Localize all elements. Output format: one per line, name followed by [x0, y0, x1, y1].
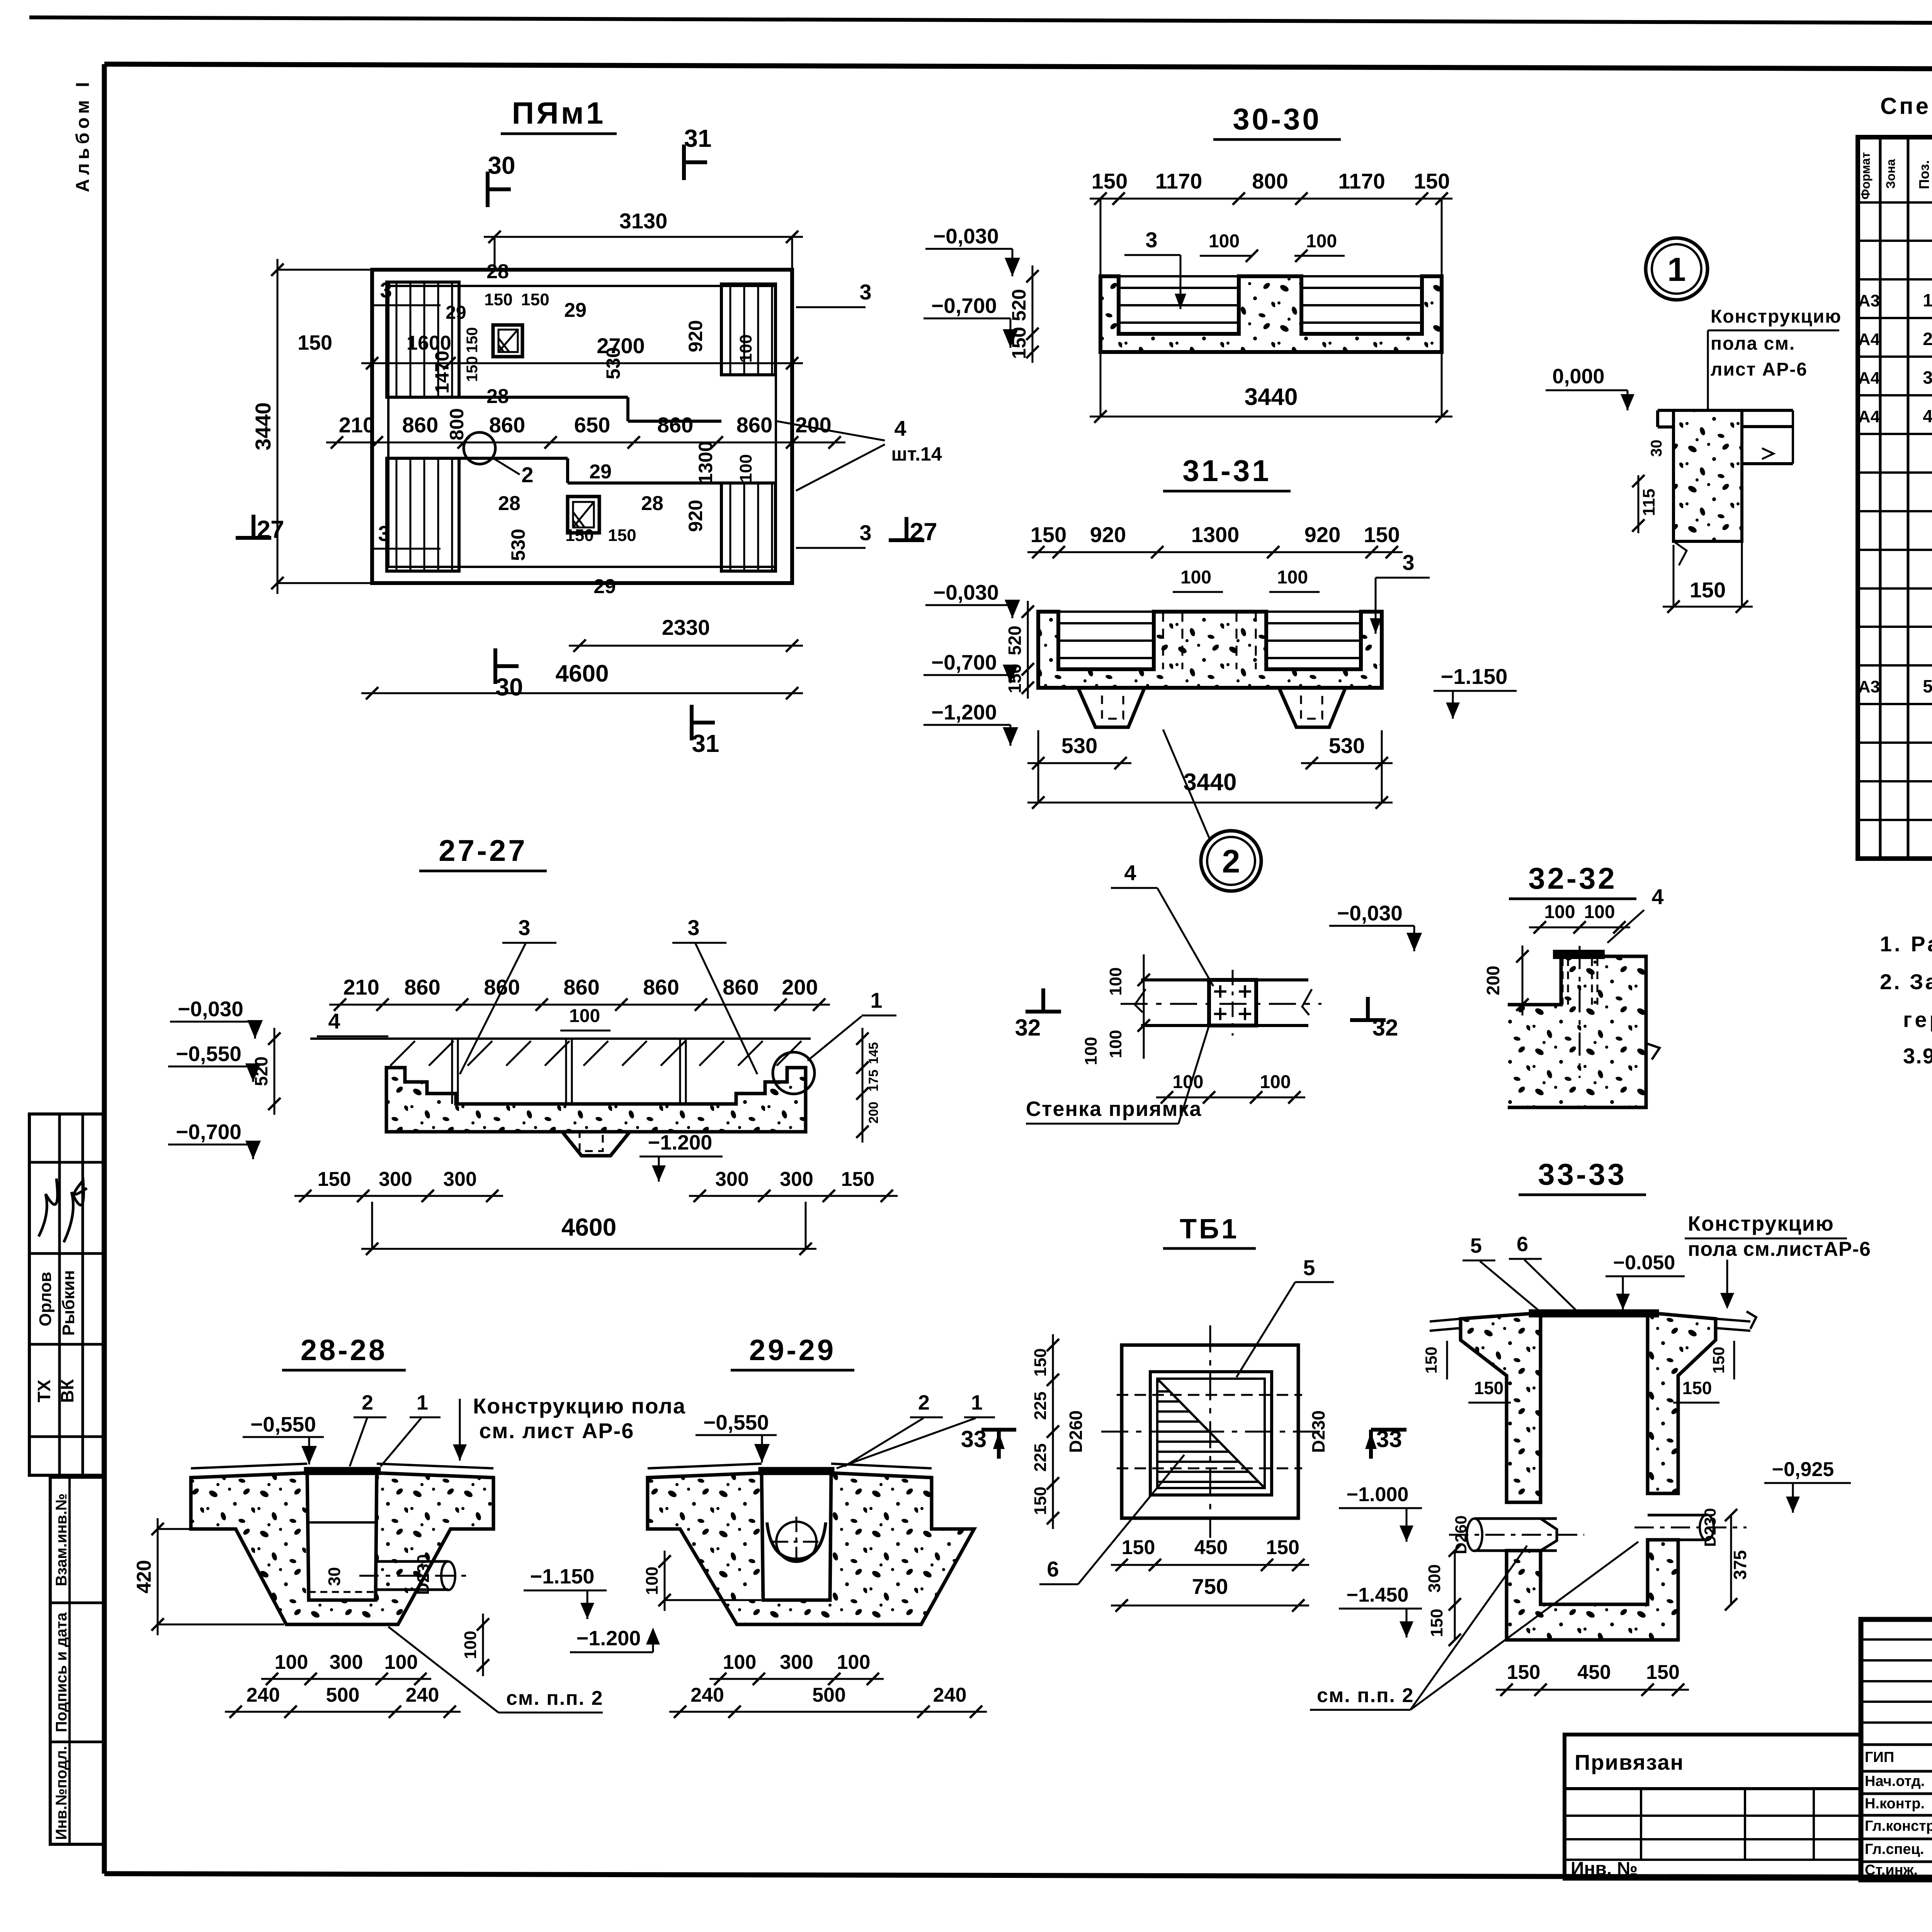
section 27-27 node circle 1	[773, 1052, 815, 1094]
plan ТБ1 bottom dims	[1111, 1536, 1309, 1612]
section 32-32 body	[1508, 946, 1660, 1107]
svg-text:D260: D260	[1066, 1410, 1086, 1453]
plan section marks 27	[236, 515, 937, 546]
svg-text:100: 100	[1584, 902, 1615, 922]
plan ТБ1 labels D260 D230	[1066, 1410, 1328, 1453]
svg-text:100: 100	[837, 1651, 871, 1673]
svg-text:Нач.отд.: Нач.отд.	[1865, 1773, 1925, 1789]
svg-text:145: 145	[866, 1042, 881, 1064]
section 31-31 left dims 520 150	[1005, 601, 1034, 699]
svg-text:4600: 4600	[561, 1213, 616, 1241]
svg-text:4600: 4600	[556, 660, 609, 687]
svg-text:3: 3	[1402, 550, 1414, 575]
svg-text:860: 860	[736, 413, 772, 437]
svg-text:−0,550: −0,550	[176, 1042, 241, 1066]
svg-text:200: 200	[782, 975, 818, 999]
svg-text:−0,550: −0,550	[250, 1412, 316, 1436]
svg-text:Поз.: Поз.	[1916, 160, 1932, 189]
plan grate panel top-right	[721, 284, 776, 375]
svg-text:1: 1	[417, 1391, 428, 1414]
svg-text:2: 2	[1923, 329, 1932, 349]
tie-in table Привязан	[1565, 1735, 1861, 1879]
svg-text:150: 150	[841, 1168, 875, 1190]
svg-text:5: 5	[1470, 1234, 1482, 1257]
svg-text:920: 920	[685, 320, 706, 352]
svg-text:1170: 1170	[1338, 169, 1385, 193]
svg-text:−1.200: −1.200	[648, 1131, 713, 1154]
section 33-33 pipe D230 right	[1634, 1515, 1747, 1540]
section 28-28 elevation -1.150	[524, 1565, 607, 1619]
svg-text:2: 2	[918, 1391, 930, 1414]
svg-text:150: 150	[565, 526, 594, 545]
svg-text:860: 860	[723, 975, 759, 999]
svg-text:100: 100	[1544, 902, 1575, 922]
section 29-29 labels 2 1	[837, 1391, 995, 1468]
section 27-27 elevation -1.200	[639, 1131, 723, 1182]
svg-text:750: 750	[1192, 1574, 1228, 1599]
node 1 dims 30 115 20	[1632, 440, 1665, 533]
svg-text:−0,700: −0,700	[931, 294, 997, 318]
section 33-33 left dims 300 150 D260	[1425, 1515, 1470, 1646]
svg-text:300: 300	[379, 1168, 412, 1190]
section 29-29 section mark 33 right	[961, 1426, 1016, 1459]
svg-text:D230: D230	[1701, 1508, 1719, 1547]
svg-text:герметиком в соответствии с: герметиком в соответствии с рекомендация…	[1903, 1007, 1932, 1032]
svg-text:см. п.п. 2: см. п.п. 2	[1317, 1684, 1414, 1707]
section 33-33 bottom dims	[1496, 1661, 1689, 1696]
svg-text:Ст.инж.: Ст.инж.	[1865, 1862, 1918, 1878]
section 32-32 dims 100 100	[1529, 902, 1630, 934]
svg-text:225: 225	[1031, 1443, 1050, 1471]
svg-text:30: 30	[495, 673, 523, 701]
section 27-27 body	[386, 1068, 806, 1156]
plan small anchor dims	[446, 260, 663, 598]
svg-text:ПЯм1: ПЯм1	[512, 96, 606, 130]
plan ТБ1 grate frame	[1150, 1372, 1272, 1495]
svg-text:150: 150	[1092, 169, 1128, 193]
node 2 leader to section 31-31	[1163, 730, 1209, 838]
svg-text:Инв. №: Инв. №	[1571, 1859, 1638, 1879]
svg-text:920: 920	[1090, 522, 1126, 547]
svg-text:2. Зазор между трубой и ст: 2. Зазор между трубой и стенкой трапа за…	[1880, 969, 1932, 994]
svg-text:500: 500	[812, 1684, 846, 1706]
svg-text:240: 240	[247, 1684, 280, 1706]
section 32-32 label 4	[1607, 884, 1664, 943]
svg-text:−0,030: −0,030	[933, 580, 999, 604]
section 27-27 right dims 145 175 200	[856, 1028, 881, 1143]
svg-text:300: 300	[715, 1168, 749, 1190]
svg-text:2: 2	[1222, 843, 1240, 879]
svg-text:29-29: 29-29	[749, 1334, 836, 1367]
svg-text:ГИП: ГИП	[1865, 1749, 1894, 1765]
svg-text:3440: 3440	[251, 402, 275, 451]
svg-text:2: 2	[362, 1391, 373, 1414]
section 31-31 body	[1038, 612, 1382, 688]
svg-text:3: 3	[378, 521, 390, 546]
svg-text:150: 150	[1507, 1661, 1541, 1684]
section 30-30 elevation -0,700	[923, 294, 1018, 348]
svg-text:150: 150	[1031, 522, 1066, 547]
section 33-33 leader см.п.п.2	[1310, 1542, 1638, 1710]
svg-text:100: 100	[736, 454, 755, 482]
notes text	[1880, 932, 1932, 1068]
svg-text:860: 860	[404, 975, 440, 999]
svg-text:2: 2	[521, 463, 533, 487]
svg-text:см. лист АР-6: см. лист АР-6	[479, 1418, 634, 1443]
svg-text:Подпись и дата: Подпись и дата	[53, 1612, 70, 1732]
plan dimensions middle row	[326, 413, 845, 449]
section 33-33 dims 150 top	[1422, 1341, 1734, 1403]
title block grid	[1861, 1619, 1932, 1881]
paper outer top edge line	[29, 17, 1932, 25]
svg-text:4: 4	[328, 1009, 340, 1033]
svg-text:3440: 3440	[1245, 384, 1298, 410]
svg-text:4: 4	[1923, 406, 1932, 426]
svg-text:800: 800	[446, 408, 468, 440]
svg-text:300: 300	[443, 1168, 477, 1190]
svg-text:30: 30	[325, 1567, 344, 1586]
svg-text:530: 530	[507, 529, 529, 561]
plan dimension 4600	[361, 660, 803, 699]
svg-text:240: 240	[690, 1684, 724, 1706]
section 27-27 floor line and grates	[310, 1039, 811, 1104]
svg-text:100: 100	[1106, 967, 1125, 995]
svg-text:Стенка приямка: Стенка приямка	[1026, 1097, 1202, 1121]
svg-text:29: 29	[589, 461, 612, 483]
section 27-27 dimension 4600	[361, 1202, 816, 1255]
svg-text:4: 4	[1651, 884, 1663, 909]
svg-text:2330: 2330	[662, 615, 710, 639]
plan ТБ1 section marks 33	[1365, 1426, 1406, 1459]
svg-text:1300: 1300	[1191, 522, 1240, 547]
plan rebar labels 3	[371, 278, 872, 549]
svg-text:420: 420	[133, 1560, 155, 1594]
svg-text:−1.450: −1.450	[1347, 1584, 1409, 1606]
svg-text:150: 150	[298, 331, 332, 354]
svg-text:4: 4	[1124, 861, 1136, 885]
svg-text:3440: 3440	[1184, 769, 1237, 796]
section 30-30 dims 100	[1200, 231, 1345, 262]
svg-text:450: 450	[1194, 1536, 1228, 1559]
section 28-28 labels 2 1	[350, 1391, 440, 1466]
svg-text:150: 150	[1709, 1347, 1728, 1374]
svg-text:33-33: 33-33	[1538, 1157, 1627, 1191]
svg-text:ВК: ВК	[57, 1379, 77, 1403]
section 27-27 bottom dims	[294, 1168, 898, 1202]
plan grate panel bottom-right	[721, 483, 776, 571]
svg-text:D230: D230	[1308, 1410, 1328, 1453]
section 27-27 labels 3 with leaders	[460, 915, 757, 1074]
svg-text:29: 29	[446, 303, 466, 323]
svg-text:шт.14: шт.14	[891, 443, 942, 465]
svg-text:0,000: 0,000	[1552, 365, 1604, 388]
section 28-28 body	[191, 1464, 493, 1624]
svg-text:450: 450	[1577, 1661, 1611, 1684]
plan dimension 2700 row	[298, 331, 803, 369]
node 2 detail label 4 with leader	[1111, 861, 1213, 986]
svg-text:300: 300	[1425, 1564, 1444, 1592]
svg-text:100: 100	[569, 1006, 600, 1026]
svg-text:300: 300	[330, 1651, 363, 1673]
section 27-27 left dim 520	[251, 1028, 281, 1115]
svg-text:200: 200	[866, 1102, 881, 1124]
plan anchor plate 1	[493, 325, 522, 357]
svg-text:27-27: 27-27	[439, 833, 527, 867]
svg-text:3: 3	[687, 915, 699, 940]
svg-text:29: 29	[564, 299, 587, 321]
svg-text:31: 31	[684, 124, 711, 152]
svg-text:100: 100	[1277, 567, 1308, 588]
svg-text:1: 1	[971, 1391, 983, 1414]
svg-text:−0,030: −0,030	[178, 997, 243, 1021]
section 30-30 top dimensions	[1090, 169, 1452, 274]
svg-text:D230: D230	[414, 1554, 433, 1595]
svg-text:−1.150: −1.150	[530, 1565, 595, 1588]
svg-text:100: 100	[1172, 1072, 1203, 1092]
svg-text:3: 3	[1923, 367, 1932, 388]
svg-text:32: 32	[1372, 1015, 1398, 1041]
svg-text:860: 860	[484, 975, 520, 999]
svg-text:100: 100	[1209, 231, 1240, 252]
svg-text:см. п.п. 2: см. п.п. 2	[506, 1687, 603, 1709]
svg-text:−0,925: −0,925	[1772, 1458, 1834, 1481]
section 31-31 top dimensions	[1027, 522, 1403, 558]
section 30-30 dimension 3440	[1090, 354, 1452, 423]
svg-text:А4: А4	[1858, 330, 1880, 349]
svg-text:Гл.спец.: Гл.спец.	[1865, 1841, 1924, 1857]
plan ТБ1 left dims 150 225 225 150	[1031, 1334, 1059, 1529]
section 31-31 elevations	[923, 580, 1020, 746]
svg-text:−0,030: −0,030	[1337, 901, 1403, 925]
svg-text:150: 150	[1474, 1378, 1504, 1398]
section 33-33 body	[1430, 1311, 1756, 1640]
plan dimension 3440 vertical	[251, 259, 371, 594]
svg-text:175: 175	[866, 1070, 881, 1092]
section 27-27 elevations left	[168, 997, 263, 1159]
svg-text:150: 150	[1122, 1536, 1155, 1559]
svg-text:150: 150	[1427, 1609, 1446, 1637]
svg-text:1300: 1300	[695, 441, 716, 484]
section 29-29 bottom dims	[669, 1651, 987, 1718]
svg-text:530: 530	[602, 347, 624, 379]
section 30-30 elevation -0,030	[925, 224, 1020, 276]
svg-text:Зона: Зона	[1884, 159, 1898, 189]
section 27-27 label 4 left	[317, 1009, 388, 1036]
svg-text:31-31: 31-31	[1182, 454, 1271, 488]
svg-text:3: 3	[859, 280, 871, 304]
svg-text:28: 28	[486, 385, 509, 408]
svg-text:860: 860	[489, 413, 525, 437]
svg-text:Рыбкин: Рыбкин	[59, 1270, 78, 1336]
svg-text:150: 150	[1682, 1378, 1712, 1398]
section 32-32 dim 200 left	[1483, 946, 1529, 1015]
svg-text:31: 31	[692, 730, 719, 757]
node 2 section marks 32	[1015, 988, 1398, 1041]
svg-text:3.900-3, вып. 1 п. 6.2 .: 3.900-3, вып. 1 п. 6.2 .	[1903, 1044, 1932, 1068]
svg-text:100: 100	[461, 1631, 480, 1659]
svg-text:150: 150	[1031, 1486, 1050, 1515]
svg-text:1. Расположение приямка ПЯм1: 1. Расположение приямка ПЯм1, трапа ТБ1 …	[1880, 932, 1932, 956]
svg-text:100: 100	[643, 1566, 662, 1595]
section 31-31 dims 530	[1027, 733, 1393, 769]
plan ТБ1 label 5 leader	[1236, 1255, 1334, 1377]
svg-text:150: 150	[318, 1168, 351, 1190]
section 27-27 label 1	[808, 988, 896, 1061]
section 33-33 elevation -0.050	[1605, 1252, 1685, 1310]
section 33-33 elevation -0,925	[1764, 1458, 1851, 1513]
section 32-32 elevation -0,030	[1329, 901, 1422, 951]
section 31-31 dimension 3440	[1027, 730, 1393, 809]
svg-text:5: 5	[1303, 1255, 1315, 1280]
svg-text:32-32: 32-32	[1528, 861, 1617, 895]
svg-text:520: 520	[1005, 626, 1025, 655]
plan ТБ1 label 6	[1039, 1455, 1184, 1584]
svg-text:27: 27	[910, 518, 937, 546]
svg-text:530: 530	[1329, 733, 1365, 758]
svg-text:100: 100	[736, 334, 755, 362]
svg-text:D260: D260	[1452, 1515, 1470, 1554]
section 29-29 dim 100 vertical	[643, 1551, 761, 1611]
svg-text:пола см.: пола см.	[1711, 333, 1795, 354]
svg-text:Конструкцию: Конструкцию	[1711, 306, 1842, 327]
specification table header	[1859, 148, 1932, 199]
svg-text:4: 4	[894, 416, 906, 440]
svg-text:150: 150	[1690, 578, 1726, 602]
plan grate panel bottom-left	[387, 458, 459, 571]
svg-text:−1.150: −1.150	[1441, 664, 1508, 689]
section 33-33 right dims 375 D230	[1701, 1508, 1750, 1611]
svg-text:Конструкцию пола: Конструкцию пола	[473, 1394, 686, 1418]
svg-text:28: 28	[641, 492, 663, 515]
section 31-31 elevation -1.150 right	[1434, 664, 1517, 719]
section 33-33 note Конструкцию пола	[1685, 1212, 1871, 1309]
svg-text:27: 27	[257, 515, 284, 543]
plan dimension 3130	[484, 209, 803, 270]
svg-text:30: 30	[488, 151, 515, 179]
svg-text:А4: А4	[1858, 369, 1880, 388]
svg-text:32: 32	[1015, 1015, 1041, 1041]
section 27-27 top dimensions	[329, 975, 830, 1011]
svg-text:Гл.констр: Гл.констр	[1865, 1818, 1932, 1834]
section 30-30 left dims 520 150	[1008, 265, 1039, 363]
section 27-27 dim 100	[560, 1006, 611, 1031]
svg-text:3: 3	[380, 278, 392, 302]
section 31-31 label 3	[1370, 550, 1430, 634]
section 29-29 body	[648, 1464, 974, 1624]
svg-text:150: 150	[1008, 327, 1030, 359]
plan anchor plate 2	[568, 497, 599, 533]
node 1 dim 150	[1663, 466, 1753, 613]
svg-text:200: 200	[1483, 966, 1503, 995]
svg-text:Орлов: Орлов	[36, 1272, 55, 1326]
section 28-28 leader см.п.п.2	[388, 1627, 603, 1713]
svg-text:210: 210	[343, 975, 379, 999]
floor construction note 28/29	[453, 1394, 686, 1461]
svg-text:150: 150	[1646, 1661, 1680, 1684]
svg-text:6: 6	[1517, 1233, 1528, 1256]
svg-text:пола см.листАР-6: пола см.листАР-6	[1688, 1238, 1871, 1260]
svg-text:520: 520	[1008, 289, 1030, 321]
section 28-28 dim 100 vertical	[461, 1614, 489, 1676]
svg-text:150: 150	[521, 290, 549, 309]
svg-text:150: 150	[1266, 1536, 1299, 1559]
svg-text:100: 100	[1180, 567, 1211, 588]
svg-text:100: 100	[275, 1651, 308, 1673]
section 30-30 label 3	[1124, 228, 1186, 309]
svg-text:860: 860	[657, 413, 693, 437]
svg-text:−0,700: −0,700	[931, 650, 997, 674]
svg-text:300: 300	[780, 1651, 813, 1673]
svg-text:860: 860	[402, 413, 438, 437]
svg-text:860: 860	[563, 975, 599, 999]
svg-text:5: 5	[1923, 676, 1932, 696]
plan ТБ1 outer square	[1122, 1345, 1298, 1518]
plan rotated dimensions	[431, 320, 755, 561]
plan grate panel top-left	[387, 282, 459, 397]
svg-text:29: 29	[594, 575, 616, 598]
svg-text:28-28: 28-28	[301, 1334, 387, 1367]
plan label 4 шт.14	[777, 416, 942, 491]
title block signature rows	[1865, 1748, 1932, 1878]
svg-text:Взам.инв.№: Взам.инв.№	[53, 1493, 70, 1586]
svg-text:100: 100	[384, 1651, 418, 1673]
svg-text:150: 150	[608, 526, 636, 545]
section 28-28 dim 420	[133, 1518, 284, 1635]
node 1 detail drawing	[1658, 410, 1793, 565]
svg-text:ТБ1: ТБ1	[1180, 1214, 1239, 1245]
svg-text:150: 150	[1005, 664, 1025, 694]
left stamp table Взам.инв.№ / Подпись и дата / Инв.№подл.	[50, 1477, 104, 1844]
plan dimension 2330	[569, 615, 803, 652]
svg-text:30-30: 30-30	[1233, 102, 1321, 136]
svg-text:100: 100	[1306, 231, 1337, 252]
svg-text:Спецификация монолитного при: Спецификация монолитного приямка ПЯм1, т…	[1880, 93, 1932, 119]
svg-text:150: 150	[464, 327, 481, 353]
section 28-28 bottom dims	[225, 1651, 461, 1718]
svg-text:30: 30	[1648, 440, 1665, 457]
plan ПЯм1 outline	[372, 270, 792, 583]
svg-text:1170: 1170	[1155, 169, 1202, 193]
svg-text:150: 150	[1414, 169, 1450, 193]
album label Альбом I	[73, 78, 93, 192]
svg-text:3: 3	[518, 915, 530, 940]
svg-text:375: 375	[1730, 1550, 1750, 1580]
section 31-31 feet	[1078, 688, 1345, 727]
node 2 detail dims	[1082, 954, 1305, 1104]
svg-text:800: 800	[1252, 169, 1288, 193]
svg-text:100: 100	[1082, 1037, 1100, 1065]
plan section marks 31	[684, 124, 719, 757]
node 1 elevation 0,000	[1546, 365, 1634, 410]
svg-text:1470: 1470	[431, 350, 453, 393]
section 33-33 labels 5 6	[1463, 1233, 1577, 1313]
node 1 circle	[1646, 238, 1708, 300]
svg-text:−1.000: −1.000	[1347, 1483, 1409, 1506]
svg-text:Формат: Формат	[1859, 152, 1872, 200]
svg-text:150: 150	[484, 290, 512, 309]
svg-text:920: 920	[685, 500, 706, 532]
svg-text:115: 115	[1639, 489, 1658, 516]
svg-text:300: 300	[780, 1168, 813, 1190]
svg-text:−0,700: −0,700	[176, 1120, 241, 1144]
svg-text:Альбом I: Альбом I	[73, 78, 93, 192]
node 2 detail label Стенка приямка	[1026, 1026, 1209, 1124]
node 2 detail wall band	[1121, 980, 1321, 1026]
svg-text:100: 100	[1260, 1072, 1291, 1092]
svg-text:150: 150	[1364, 522, 1400, 547]
svg-text:−0.050: −0.050	[1613, 1252, 1675, 1274]
plan section marks 30	[488, 151, 523, 701]
